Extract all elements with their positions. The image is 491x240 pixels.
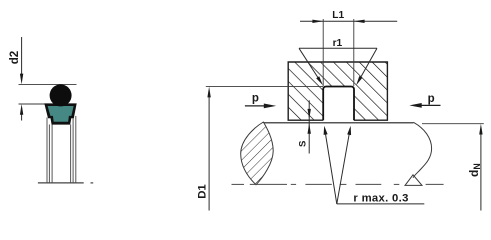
dimension dN arrowhead (points up): [479, 124, 482, 135]
groove outline: [323, 87, 354, 121]
groove bottom surface line: [38, 182, 84, 184]
dimension d2 lower arrowhead (points up): [20, 104, 23, 115]
dimension d2 line lower segment: [21, 114, 23, 121]
housing block hatching: [288, 62, 387, 120]
dimension d2 upper arrowhead (points down): [20, 74, 23, 85]
rod right break curve: [413, 122, 432, 178]
svg-text:dN: dN: [467, 163, 482, 177]
pressure arrow right line: [419, 104, 441, 106]
svg-text:p: p: [252, 92, 259, 104]
svg-text:S: S: [297, 140, 308, 147]
radius r1 right arrowhead: [356, 76, 362, 85]
pressure arrow right head: [409, 103, 421, 108]
dimension S upper arrowhead (points down to block bottom): [308, 109, 311, 119]
radius r1 leader bar: [299, 47, 377, 49]
dimension d2 top extension line (tangent to o-ring top): [19, 83, 77, 85]
housing block outline: [288, 62, 387, 120]
dimension L1 left arrowhead (points right): [312, 20, 323, 23]
dimension D1 line: [208, 97, 210, 211]
groove corner radius note: right arrowhead: [347, 126, 351, 135]
seal ring cup (turquoise body): [48, 106, 74, 122]
groove corner radius note: underline: [337, 203, 425, 205]
dimension dN line: [480, 134, 482, 211]
dimension L1 right arrowhead (points left): [354, 20, 365, 23]
groove wall lines left of seal: [46, 118, 48, 183]
groove corner radius note: leader left arm: [325, 129, 337, 204]
groove wall lines right of seal: [70, 125, 72, 183]
radius r1 right leader arm: [358, 48, 377, 82]
svg-text:r max. 0.3: r max. 0.3: [353, 193, 408, 205]
svg-text:D1: D1: [196, 184, 208, 199]
dimension d2 bottom extension line (seal rim level): [19, 103, 46, 105]
centerline (dash-dot): [232, 183, 444, 185]
dimension d2 line upper segment: [21, 37, 23, 74]
rod left break (hatched lens): [241, 122, 274, 185]
rod right break end triangle: [405, 175, 422, 186]
dimension L1 right extension line (groove right wall): [353, 19, 355, 86]
svg-text:p: p: [428, 93, 435, 105]
pressure arrow left head: [264, 104, 276, 109]
groove corner radius note: left arrowhead: [324, 126, 328, 135]
groove corner radius note: leader right arm: [337, 128, 350, 204]
radius r1 left arrowhead: [316, 76, 323, 85]
dimension L1 line: [300, 20, 397, 22]
o-ring cross-section (black circle): [50, 84, 72, 106]
rod top surface line: [263, 122, 413, 124]
pressure arrow left line: [245, 105, 266, 107]
dimension S line: [308, 100, 310, 153]
dimension dN extension line (rod diameter level): [422, 123, 484, 125]
groove bottom continuation dash: [91, 182, 94, 184]
dimension L1 left extension line (groove left wall): [322, 19, 324, 86]
svg-text:L1: L1: [332, 10, 344, 21]
dimension D1 extension line (groove root level): [206, 86, 323, 88]
dimension D1 arrowhead (points up): [207, 87, 210, 98]
dimension S lower arrowhead (points up to rod top): [308, 123, 311, 133]
radius r1 left leader arm: [299, 48, 321, 81]
seal ring cup (black outline): [44, 103, 76, 124]
svg-text:d2: d2: [8, 51, 21, 65]
svg-text:r1: r1: [333, 38, 343, 49]
